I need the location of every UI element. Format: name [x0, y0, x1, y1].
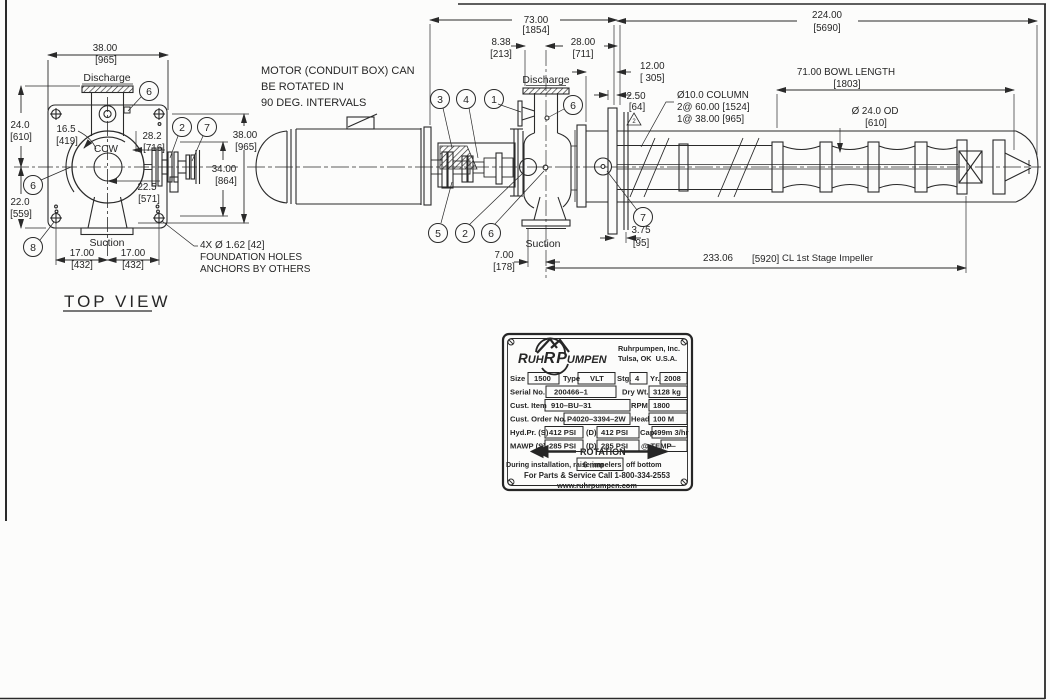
dim 17.00 bottom: dimension lines: [56, 259, 108, 261]
coupling disc pair 2: [462, 156, 467, 182]
suction bell cone: [1005, 153, 1031, 166]
svg-text:(D): (D): [586, 428, 597, 437]
dim 224.00: line: [617, 20, 797, 22]
barrel neck: [586, 130, 608, 132]
svg-text:[571]: [571]: [138, 194, 160, 205]
top view: centerline vertical: [107, 97, 109, 258]
svg-text:[610]: [610]: [10, 132, 32, 143]
balloon 6 top: [128, 97, 141, 111]
bowl flange ring 2: [820, 142, 832, 192]
svg-text:Suction: Suction: [89, 237, 124, 249]
motor shaft stub: [431, 160, 442, 174]
foundation holes leader: [162, 221, 198, 246]
svg-text:2.50: 2.50: [626, 91, 646, 102]
svg-text:3.75: 3.75: [631, 225, 651, 236]
svg-text:4: 4: [635, 374, 640, 383]
svg-text:4X Ø 1.62 [42]: 4X Ø 1.62 [42]: [200, 240, 265, 251]
nameplate data text: [506, 374, 689, 490]
svg-text:[711]: [711]: [572, 49, 593, 60]
svg-text:—: —: [668, 442, 676, 451]
svg-text:[64]: [64]: [629, 102, 646, 113]
svg-text:Dry Wt.: Dry Wt.: [622, 388, 649, 397]
svg-text:www.ruhrpumpen.com: www.ruhrpumpen.com: [556, 481, 637, 490]
svg-text:TOP VIEW: TOP VIEW: [64, 292, 171, 311]
dim 73.00: line: [430, 19, 512, 21]
svg-text:233.06: 233.06: [703, 253, 734, 264]
sheet border bottom: [0, 698, 1045, 700]
svg-text:RPM: RPM: [631, 401, 648, 410]
dim 233.06: line: [546, 267, 966, 269]
dim 24.0 left: dimension line: [20, 86, 22, 113]
svg-text:For Parts & Service Call 1-800: For Parts & Service Call 1-800-334-2553: [524, 471, 671, 480]
svg-text:6: 6: [570, 100, 576, 112]
svg-text:7: 7: [640, 212, 646, 224]
dim 28.00: line: [546, 45, 563, 47]
svg-text:6: 6: [30, 180, 36, 192]
coupling spacer: [453, 161, 470, 174]
svg-text:2@ 60.00 [1524]: 2@ 60.00 [1524]: [677, 102, 750, 113]
svg-text:[610]: [610]: [865, 118, 887, 129]
svg-text:RUHRPUMPEN: RUHRPUMPEN: [518, 350, 608, 367]
svg-text:[432]: [432]: [122, 260, 144, 271]
column break marks 2: [718, 138, 743, 197]
svg-text:38.00: 38.00: [93, 43, 118, 54]
bowl flange ring 1: [772, 142, 783, 192]
main centerline: [247, 166, 1041, 168]
motor stand flanges: [513, 129, 515, 196]
balloon 2 side: [469, 172, 524, 225]
column coupling: [679, 144, 688, 191]
logo emblem circle: [536, 338, 565, 354]
svg-text:VLT: VLT: [590, 374, 604, 383]
svg-text:412 PSI: 412 PSI: [549, 428, 576, 437]
vent valve: [518, 101, 522, 126]
motor flange: [424, 127, 431, 205]
top view: bolt hole BR: [153, 212, 165, 224]
svg-text:17.00: 17.00: [70, 248, 95, 259]
top view: baseplate: [48, 105, 167, 228]
barrel head flange: [577, 125, 586, 207]
svg-text:6: 6: [488, 228, 494, 240]
svg-text:2: 2: [179, 122, 185, 134]
svg-text:Yr.: Yr.: [650, 374, 660, 383]
svg-text:200466–1: 200466–1: [554, 388, 589, 397]
svg-text:Type: Type: [563, 374, 580, 383]
svg-text:[5690]: [5690]: [813, 23, 841, 34]
top view: coupling shaft: [144, 164, 152, 166]
dim 38.00 right: dimension line: [243, 114, 245, 126]
top view: bolt hole BL: [50, 212, 62, 224]
dim 7.00: arrows: [514, 261, 528, 263]
svg-text:2: 2: [462, 228, 468, 240]
nameplate corner screws: [508, 339, 514, 345]
svg-text:off bottom: off bottom: [626, 460, 662, 469]
dim 16.5 leader: [78, 131, 96, 149]
nameplate logo text: [518, 350, 608, 367]
svg-text:[95]: [95]: [633, 238, 650, 249]
svg-text:Ruhrpumpen, Inc.: Ruhrpumpen, Inc.: [618, 344, 680, 353]
svg-text:Stg.: Stg.: [617, 374, 631, 383]
svg-text:1: 1: [491, 94, 497, 106]
barrel can: [617, 130, 1016, 132]
svg-text:6 mm: 6 mm: [583, 461, 604, 470]
logo emblem peaks: [537, 339, 569, 353]
balloon 6 head: [549, 109, 564, 117]
svg-text:[1803]: [1803]: [833, 79, 861, 90]
svg-text:Cust. Item: Cust. Item: [510, 401, 547, 410]
ext soleplate to top: [613, 25, 615, 105]
svg-text:2008: 2008: [664, 374, 681, 383]
svg-text:8: 8: [30, 242, 36, 254]
bowl body 1: [783, 146, 820, 188]
svg-text:Discharge: Discharge: [522, 74, 569, 86]
sheet border top: [458, 3, 1046, 5]
balloon 6 left: [41, 167, 71, 180]
svg-text:Head: Head: [631, 415, 650, 424]
svg-text:12.00: 12.00: [640, 61, 665, 72]
svg-text:[178]: [178]: [493, 262, 515, 273]
coupling guard box: [438, 143, 515, 187]
sheet border right: [1044, 4, 1046, 699]
svg-text:[1854]: [1854]: [522, 25, 550, 36]
svg-text:3: 3: [437, 94, 443, 106]
svg-text:[213]: [213]: [490, 49, 512, 60]
svg-text:28.2: 28.2: [142, 131, 161, 142]
dim 3.75: arrows: [600, 237, 614, 239]
svg-text:3128 kg: 3128 kg: [653, 388, 681, 397]
balloon 3: [443, 108, 452, 148]
column break marks 1: [630, 138, 655, 197]
coupling guard hatch: [440, 146, 477, 169]
svg-text:ROTATION: ROTATION: [580, 447, 626, 457]
top view: coupling guard bracket: [170, 177, 178, 192]
suction case plate 1: [957, 140, 967, 194]
top view: volute arc left: [66, 142, 74, 192]
svg-text:CL 1st Stage Impeller: CL 1st Stage Impeller: [782, 253, 873, 264]
bowl flange ring 4: [915, 142, 927, 192]
svg-text:28.00: 28.00: [571, 37, 596, 48]
dim 17.00 bottom: extension lines: [55, 224, 57, 265]
svg-text:90 DEG. INTERVALS: 90 DEG. INTERVALS: [261, 97, 366, 109]
svg-text:100 M: 100 M: [653, 415, 674, 424]
svg-text:224.00: 224.00: [812, 10, 843, 21]
svg-text:Tulsa, OK U.S.A.: Tulsa, OK U.S.A.: [618, 354, 677, 363]
bowl body 4: [927, 146, 957, 188]
svg-text:Ø 24.0 OD: Ø 24.0 OD: [852, 106, 899, 117]
balloon 5: [441, 182, 452, 223]
svg-text:1800: 1800: [653, 401, 670, 410]
balloon 1: [498, 104, 521, 112]
svg-text:8.38: 8.38: [491, 37, 511, 48]
svg-text:38.00: 38.00: [233, 130, 258, 141]
dim 22.0 left: dimension line: [20, 167, 22, 194]
dim 2.50: arrows outside: [594, 94, 608, 96]
svg-text:34.00: 34.00: [212, 164, 237, 175]
balloon 6 side: [495, 171, 544, 224]
top view: discharge nozzle circle: [99, 106, 116, 123]
svg-text:Cust. Order No.: Cust. Order No.: [510, 415, 566, 424]
svg-text:7.00: 7.00: [494, 250, 514, 261]
shaft circle at plate: [595, 158, 612, 175]
bowl flange ring 3: [868, 142, 879, 192]
svg-text:[ 305]: [ 305]: [640, 73, 665, 84]
dim 22.5 leader arrow: [108, 180, 160, 182]
dim 34.00 right: dimension line: [222, 142, 224, 160]
balloon 2 top: [170, 136, 178, 158]
svg-text:1500: 1500: [534, 374, 551, 383]
top view: CCW arrow arc: [84, 137, 125, 148]
top view: coupling discs: [152, 148, 156, 186]
svg-text:Ø10.0 COLUMN: Ø10.0 COLUMN: [677, 90, 749, 101]
discharge flange (side): [523, 88, 569, 94]
balloon 7 side: [607, 171, 637, 210]
svg-text:Hyd.Pr. (S): Hyd.Pr. (S): [510, 428, 549, 437]
motor conduit box: [347, 117, 374, 129]
svg-text:22.5: 22.5: [137, 182, 157, 193]
ext 8.38: [524, 50, 526, 86]
svg-text:4: 4: [463, 94, 469, 106]
vent valve dot: [545, 116, 549, 120]
svg-text:412 PSI: 412 PSI: [601, 428, 628, 437]
svg-text:P4020–3394–2W: P4020–3394–2W: [567, 415, 627, 424]
bowl body 2: [832, 146, 868, 188]
column pipe: [617, 145, 772, 147]
svg-text:5: 5: [435, 228, 441, 240]
sheet border left: [5, 0, 7, 521]
motor dome: [256, 131, 287, 203]
dim 73.00 ext left: [429, 24, 431, 125]
motor body: [296, 129, 421, 204]
coupling hub: [473, 162, 484, 173]
dim 28.2 leader arrow: [133, 149, 165, 151]
note column leader: [641, 102, 674, 147]
balloon 4: [469, 108, 478, 158]
dim 12.00: arrows outside: [572, 71, 586, 73]
svg-text:7: 7: [204, 122, 210, 134]
svg-text:Discharge: Discharge: [83, 72, 130, 84]
top view: casing circle: [72, 131, 144, 203]
top view: bolt hole TR: [153, 108, 165, 120]
svg-text:2: 2: [632, 119, 636, 125]
svg-text:16.5: 16.5: [56, 124, 76, 135]
svg-text:FOUNDATION HOLES: FOUNDATION HOLES: [200, 252, 302, 263]
svg-text:1@ 38.00 [965]: 1@ 38.00 [965]: [677, 114, 744, 125]
balloon 7 top: [192, 136, 203, 161]
impeller cross box: [959, 151, 982, 183]
svg-text:[432]: [432]: [71, 260, 93, 271]
nameplate field boxes: [528, 373, 687, 471]
secondary plate: [623, 112, 625, 230]
svg-text:[559]: [559]: [10, 209, 32, 220]
bowl body 3: [879, 146, 915, 188]
top view: discharge flange: [82, 86, 133, 93]
svg-text:Suction: Suction: [525, 238, 560, 250]
mounting soleplate: [608, 108, 617, 234]
warn triangle 2: [627, 113, 641, 125]
svg-text:MOTOR (CONDUIT BOX) CAN: MOTOR (CONDUIT BOX) CAN: [261, 65, 415, 77]
top view: centerline horizontal: [14, 166, 238, 168]
svg-text:[965]: [965]: [95, 55, 117, 66]
nameplate inner frame: [508, 339, 688, 486]
dim 71.00 bowl length: line: [777, 89, 1014, 91]
pump shaft: [617, 164, 958, 166]
svg-text:71.00 BOWL LENGTH: 71.00 BOWL LENGTH: [797, 67, 895, 78]
nameplate outer frame: [503, 334, 692, 490]
svg-text:285 PSI: 285 PSI: [549, 442, 576, 451]
top view: suction pipe: [88, 197, 95, 228]
svg-text:[716]: [716]: [143, 143, 165, 154]
svg-text:Serial No.: Serial No.: [510, 388, 545, 397]
suction case plate 2: [993, 140, 1005, 194]
svg-text:6: 6: [146, 86, 152, 98]
svg-text:17.00: 17.00: [121, 248, 146, 259]
svg-text:ANCHORS BY OTHERS: ANCHORS BY OTHERS: [200, 264, 311, 275]
head center dot: [543, 165, 548, 170]
svg-text:24.0: 24.0: [10, 120, 30, 131]
suction flange (side): [522, 220, 570, 226]
discharge pipe (side): [534, 93, 536, 133]
balloon 8: [40, 222, 54, 240]
coupling disc pair 1: [442, 152, 447, 188]
top view: casing inner circle: [94, 153, 122, 181]
svg-text:BE ROTATED IN: BE ROTATED IN: [261, 81, 344, 93]
head body: [524, 133, 535, 208]
svg-text:910–BU–31: 910–BU–31: [551, 401, 592, 410]
head centerline vertical: [545, 50, 547, 278]
svg-text:Size: Size: [510, 374, 525, 383]
suction elbow (side): [534, 197, 540, 220]
motor dome ring: [286, 131, 288, 203]
svg-text:[965]: [965]: [235, 142, 257, 153]
svg-text:22.0: 22.0: [10, 197, 30, 208]
svg-text:[419]: [419]: [56, 136, 78, 147]
svg-text:499m 3/hr: 499m 3/hr: [653, 428, 689, 437]
seal chamber circle: [520, 159, 537, 176]
dim 8.38: arrows: [511, 45, 525, 47]
dia 24 leader: [839, 128, 841, 152]
svg-text:[864]: [864]: [215, 176, 237, 187]
dim 38.00 top: dimension line: [48, 54, 168, 56]
svg-text:CCW: CCW: [94, 144, 118, 155]
dim 38.00 top: extension lines: [47, 60, 49, 110]
top view: leveling screw dots: [55, 205, 58, 208]
svg-text:[5920]: [5920]: [752, 254, 780, 265]
svg-text:During installation, raise imp: During installation, raise impelers: [506, 460, 621, 469]
top view: suction flange: [81, 228, 133, 235]
top view: discharge pipe: [91, 92, 93, 136]
ext at right end: [1036, 25, 1038, 155]
rotation arrows: [531, 445, 668, 459]
top view: bolt hole TL: [50, 108, 62, 120]
